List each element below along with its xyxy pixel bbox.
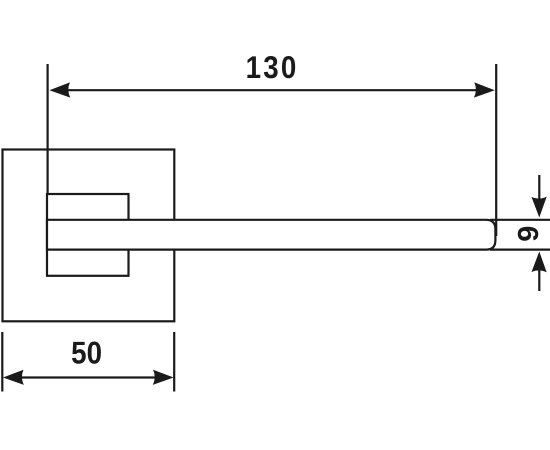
handle neck square bbox=[47, 194, 129, 276]
extension line left 50 bbox=[1, 332, 3, 392]
extension line right 50 bbox=[173, 332, 175, 392]
arrowhead 130 left bbox=[49, 82, 70, 97]
extension line bottom 9 bbox=[490, 249, 550, 251]
dimension line 130 bbox=[66, 89, 478, 91]
arrowhead 130 right bbox=[474, 82, 495, 97]
svg-text:50: 50 bbox=[71, 335, 102, 371]
arrowhead 50 right bbox=[153, 370, 174, 385]
arrowhead 9 up bbox=[532, 252, 547, 273]
dimension leader lower 9 bbox=[538, 268, 540, 291]
extension line top 9 bbox=[490, 219, 550, 221]
extension line left 130 bbox=[46, 64, 48, 194]
arrowhead 9 down bbox=[532, 197, 547, 218]
dimension leader upper 9 bbox=[538, 175, 540, 200]
svg-text:130: 130 bbox=[246, 49, 299, 85]
dimension line 50 bbox=[20, 376, 157, 378]
svg-text:9: 9 bbox=[513, 226, 545, 242]
extension line right 130 bbox=[495, 64, 497, 236]
lever bar bbox=[47, 220, 495, 250]
rosette square plate bbox=[3, 150, 175, 322]
arrowhead 50 left bbox=[3, 370, 24, 385]
